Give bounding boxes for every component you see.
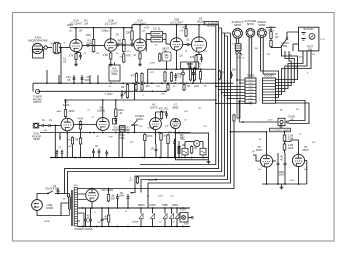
capacitor C13 series [48,124,50,127]
wire riser x119 [118,133,120,158]
svg-text:45V: 45V [299,57,303,59]
junction dots rail B [152,90,154,92]
input jack J1 [44,46,47,49]
capacitor C14 [114,118,117,120]
pilot lamp PL1 [180,213,188,223]
svg-text:117V: 117V [268,120,273,122]
junction dots row2 bottom [89,132,91,134]
wire V1 plate to bus [75,28,77,40]
wire stack top tie [270,28,272,31]
wire V4 cathode down [176,50,178,69]
svg-text:47K: 47K [221,72,226,75]
resistor R14 on bundle [218,71,220,79]
svg-text:MICROPHONE: MICROPHONE [28,39,48,43]
junction dots row3 [51,157,53,159]
svg-text:6.8K: 6.8K [108,137,113,139]
svg-text:6AQ5: 6AQ5 [197,20,205,24]
svg-text:1M: 1M [96,53,99,55]
wire row2 left end down [59,133,61,141]
svg-text:GANG: GANG [136,118,143,121]
bottom ground rail [78,226,190,228]
svg-text:47K: 47K [126,54,131,58]
wire box to switch [286,32,288,38]
resistor R2 input network [58,44,61,53]
svg-text:V10 35W4: V10 35W4 [101,188,113,192]
heater H4 [171,208,173,214]
power transformer T3 secondary coil [74,188,77,227]
switch S1 [281,45,283,47]
resistor R38 under IF [199,72,201,80]
xtal phono head PH1 [34,124,38,128]
tube V10 output left [260,155,272,167]
crystal microphone MIC1 [32,43,42,53]
tube V9 small [170,119,180,129]
svg-text:1ST IF: 1ST IF [147,128,154,130]
resistor R4 plate load V1 [92,40,95,52]
wire nested N2 [276,51,295,83]
resistors under V5 right [189,68,191,80]
bus rail B [38,90,168,92]
svg-text:100K: 100K [105,31,111,33]
capacitor C20 [178,145,181,147]
wire R17 down [80,130,82,138]
svg-text:220K: 220K [288,137,294,140]
wire long line from rectifier top [78,122,235,189]
wire staircase branch row y92.5 [222,92,245,94]
svg-text:VC P-P: VC P-P [207,26,215,28]
wire strip verticals bottom ties [237,112,240,118]
capacitor C30 under R11 [131,42,134,44]
svg-text:6BE6: 6BE6 [194,86,200,88]
resistor R26 [283,135,286,141]
wire left of V10 [253,155,260,161]
junction dots ground rail [82,226,84,228]
wave box right [200,148,206,155]
wire R24 down [160,141,162,157]
svg-text:1M: 1M [84,21,88,25]
wire rail A left end down [32,83,34,91]
svg-text:PH: PH [204,126,207,128]
tone capacitor box C6 [151,37,163,42]
wire caps down to rail [117,202,119,208]
rectifier tube V12 [86,189,99,202]
wire strip bundle vertical A [236,80,238,112]
wires tone network right [163,33,167,35]
resistor R27 [283,144,286,150]
resistor R18 [79,138,81,144]
svg-text:TO SPEAKER: TO SPEAKER [204,22,218,25]
wire bundle line 5 heater feed [141,36,228,193]
svg-text:500K: 500K [112,73,118,76]
wire input node down [60,48,62,84]
bottom rail output pair [262,183,307,185]
svg-text:1K: 1K [133,55,136,57]
cathode resistor R10 V5 [195,56,197,63]
wire C2 node to V2 grid [94,45,105,47]
wire R23 leads [144,132,146,135]
battery cell symbols in box [302,32,306,34]
svg-text:SO: SO [296,109,299,111]
AC line plug P1 [32,200,43,211]
svg-text:12K: 12K [130,142,134,144]
wire head out [39,125,42,127]
svg-text:.02: .02 [63,59,67,63]
svg-text:4: 4 [259,86,260,88]
tone capacitor box C5 [151,31,163,36]
capacitor C10 on drop [73,77,76,79]
terminal strip TS1 left block [245,78,256,103]
svg-text:150MA: 150MA [132,221,139,224]
svg-text:SPKR: SPKR [234,23,241,27]
capacitor C21 above label box [280,125,283,127]
wire bundle line 2 to transformer primary [65,25,219,194]
resistor R29 below rail [108,215,110,222]
wire R19 to rail [115,100,117,108]
ground V3 cathode [139,60,141,63]
capacitor C32 above bus3 [105,151,108,153]
svg-text:1.5V: 1.5V [129,180,134,182]
rail row2 bottom [40,132,190,134]
wire jack to input network [47,47,52,49]
resistor R21 right stack [270,41,272,47]
svg-text:SPKR: SPKR [258,23,265,27]
wire fuse left lead [255,121,278,123]
terminal strip TS2 right block [263,78,276,103]
wire primary ends [69,194,71,198]
wire V11 top [291,140,299,154]
tube V2 triode [105,39,117,51]
wire tone to V4 grid [166,43,170,45]
wire V8 top tie [156,111,167,113]
wire caps top tie [108,193,110,195]
wire SP1 leads down [235,38,237,44]
wire nested N1 [276,49,298,80]
capacitor C28 below rail [89,218,92,220]
wire strip bottom tie [216,103,251,105]
small resistor on fuse line [233,115,235,121]
heater H2 [152,208,154,214]
svg-text:2.7K: 2.7K [68,54,74,58]
B+ bus right segment [132,24,219,26]
resistor R18b beside R18 [71,138,73,145]
wire plug bottom lead [37,203,69,216]
wires inset top [184,142,186,149]
cathode extras V2 [123,54,125,62]
svg-text:47K: 47K [150,72,154,74]
svg-text:1.5V: 1.5V [320,39,325,41]
IF label box left [181,62,190,69]
svg-text:600V: 600V [150,63,156,65]
wire V5 plate to bus [198,25,200,37]
resistor R16 plate V6 [64,110,66,117]
svg-text:4: 4 [259,100,260,102]
junction rectifier top [91,188,93,190]
svg-text:12AT6: 12AT6 [150,105,158,109]
wire nested N4 [276,51,304,89]
capacitor C35 on bus3 left [61,151,63,153]
svg-text:Y .0047: Y .0047 [104,93,113,96]
capacitor C24 across line [57,189,60,191]
wire C4 node to V3 grid [124,44,134,46]
resistor R39 inside inset [178,147,180,154]
resistor R6 plate load V2 [123,40,126,52]
small box under V7 [113,119,117,125]
meter circle in battery box [309,34,315,40]
resistor R37 below rail A [183,85,185,91]
resistor R31b above rail A [141,74,143,83]
resistor R34 below rail A [135,85,137,91]
svg-text:BATTERY: BATTERY [304,28,315,31]
svg-text:6.3V: 6.3V [184,224,189,226]
wire staircase branch row y95.5 [224,95,245,97]
resistor R35 below rail A [141,85,143,91]
svg-text:2M: 2M [44,130,47,132]
wire bundle line 6 from SP2 [148,33,230,208]
capacitor C31 below rail B [121,93,124,95]
bus rail A [33,82,234,84]
capacitor C17 above bus3 [92,150,95,152]
svg-text:250V: 250V [158,196,164,198]
wire to V6 grid [50,125,61,127]
svg-text:150V: 150V [279,175,285,177]
capacitor C18 above bus3 [98,150,101,152]
svg-text:270: 270 [190,55,195,59]
svg-text:35C5: 35C5 [302,148,309,152]
wire nested N3 [276,51,292,86]
bypass capacitor C9 [200,57,203,59]
wire plate out to V7 [93,124,97,126]
svg-text:.02: .02 [186,38,190,42]
wire V3 plate to bus [139,25,141,39]
svg-text:2A: 2A [290,118,293,121]
svg-text:.01: .01 [115,33,119,37]
cathode resistor R5 V1 [75,54,77,60]
wire V10 down [266,167,268,184]
capacitor C27 below rail [84,218,87,220]
wire strip row lead y83 from SP1 [240,82,245,84]
wire grid leak down [54,126,56,158]
wire V10 grid [273,160,276,162]
wire row2 rail to bundle [135,99,216,101]
svg-text:4: 4 [259,83,260,85]
svg-text:+100: +100 [144,28,150,30]
wire box lower lead [293,43,299,45]
oscillator coil box L1 [120,126,126,133]
heater rail [78,207,190,209]
wire mic to jack [43,47,44,49]
capacitor C19 under V8 [155,148,158,150]
ground output pair [281,184,283,186]
fuse holder F1 [278,118,285,125]
wire chain to V11 grid [285,141,292,143]
svg-text:SR: SR [63,199,66,201]
power transformer secondary wire [76,188,78,190]
ground return line top section [148,68,203,70]
capacitor C16 [173,141,176,143]
wire bundle line 1 [140,25,216,165]
decoupling resistor R11 at bus jog [131,31,133,40]
junction dot B plus [155,179,157,181]
svg-text:150V: 150V [119,196,125,198]
bypass capacitor C3 [79,54,82,56]
wire SP3 lead A [261,38,279,98]
variable capacitor VC1 [132,120,138,126]
wire V8 cathode to C19 [155,130,157,145]
jack circle under IF left [182,72,185,75]
svg-text:600V: 600V [85,78,91,82]
bus jog at x132 [131,25,133,28]
svg-text:+250: +250 [182,27,188,29]
svg-text:TO OUTPUT TRANS: TO OUTPUT TRANS [270,129,290,132]
wire R11 top [131,28,133,30]
svg-text:220K: 220K [69,109,75,113]
power transformer T3 core [71,190,73,226]
svg-text:SW: SW [308,48,313,51]
wire rectifier down [91,202,93,209]
switch S2 on line [47,193,49,195]
meter inset box [176,133,209,160]
svg-text:47K: 47K [180,31,184,33]
wire R16 to plate [65,117,67,120]
resistor R28 [107,195,109,202]
wire pilot stub [188,217,192,219]
svg-text:150V: 150V [85,222,91,224]
svg-text:12BA6: 12BA6 [97,108,105,112]
svg-text:OSC: OSC [138,126,143,128]
wire V5 cathode [198,52,200,54]
wire bundle ties upper [222,32,231,34]
svg-text:50B5: 50B5 [162,205,168,207]
svg-text:150: 150 [145,85,150,88]
power transformer T3 primary coil [68,197,70,209]
wire V5 cathode to ground line [195,63,197,69]
wire staircase branch row y86.5 [216,86,245,88]
resistor R36 below rail A [167,85,169,91]
svg-text:2.5A: 2.5A [181,138,186,141]
coupling capacitor C2 [86,44,88,47]
output transformer T2 under SP1 [235,44,241,51]
output tube V5 beam power [191,37,206,52]
wire T4b bottom to ground line [166,61,168,69]
svg-text:.02: .02 [58,147,61,149]
wire T2 secondary down [236,54,238,80]
svg-text:470K: 470K [147,135,153,138]
svg-text:1K: 1K [163,135,166,138]
svg-text:M: M [196,143,198,146]
tube V4 driver triode [170,38,182,50]
ground inset corner [208,159,210,162]
svg-text:INPUT: INPUT [34,100,42,104]
svg-text:1.5K: 1.5K [103,53,109,57]
svg-text:TRANSFORMER: TRANSFORMER [112,129,130,132]
svg-text:CORD: CORD [46,206,54,210]
wire nested N9 lower [276,103,310,124]
svg-text:220K: 220K [288,147,294,150]
wire feed line to output pair [230,131,265,133]
svg-text:6AT6: 6AT6 [57,110,63,113]
wire SP2 lead B [251,37,253,78]
svg-text:47K .002: 47K .002 [159,108,169,111]
capacitor C34 on bus3 left [56,151,58,153]
svg-text:FUSE: FUSE [44,221,50,223]
secondary tap wires [77,193,86,195]
wire nested N8 lower going down [276,101,306,121]
tube V1 preamp triode [70,39,82,51]
svg-text:6AV6: 6AV6 [63,103,70,107]
resistor R8b left of T4b [159,54,161,61]
wire VC1 down [134,125,136,133]
volume pot VR2 below rail A [126,85,128,98]
resistor R33 above rail A [170,73,172,82]
wire V6 plate out [74,124,93,126]
wire V10 top [266,132,268,155]
wire riser rail A to row2 rail [134,83,136,100]
svg-text:470K: 470K [78,118,84,121]
wire bundle tie top [219,27,222,29]
svg-text:4.7M: 4.7M [73,139,78,142]
svg-text:35W4: 35W4 [172,205,179,207]
capacitor C12 series [41,124,43,127]
wire V9 cathode down [174,129,176,133]
svg-text:4: 4 [259,97,260,99]
rail row3 bus [50,157,209,159]
resistor R31a above rail A [135,74,137,83]
wire V8 plate up [155,112,157,118]
wire V11 down [298,167,300,184]
wire staircase branch row y98.5 [228,98,246,100]
svg-text:HEAD: HEAD [33,138,40,141]
wire bundle line 3 to transformer [68,28,222,197]
capacitor C33 right of bundle [230,73,233,75]
svg-text:.005: .005 [85,33,91,37]
svg-text:DET: DET [188,66,193,68]
wire nested N6 [276,51,312,95]
resistor R30 between heater feed lines [136,177,138,183]
wire heater rail left join [77,207,79,209]
speaker SP1 alnico [233,28,243,38]
svg-text:PM: PM [267,54,270,56]
svg-text:22K: 22K [126,31,131,35]
svg-text:GND: GND [290,180,295,182]
tube V8 pentode [150,118,162,130]
wire R28 up [108,189,110,194]
capacitor C29 below rail [101,218,104,220]
wire SP1 lead into strip [236,79,238,81]
wire R26 R27 chain [284,132,286,134]
svg-text:47K: 47K [69,31,73,33]
ground return line left end down [147,69,149,83]
heater H5 [176,208,178,214]
svg-text:4: 4 [259,94,260,96]
wire V7 plate up [102,100,104,118]
svg-text:22K: 22K [142,31,146,33]
wire strip row lead y101 from vertical [239,100,245,102]
wire plug top lead [37,194,48,200]
coupling capacitor C8 [186,43,188,46]
speaker SP2 [246,28,255,37]
wires tone network left [146,33,151,35]
jack circle under IF right [192,72,195,75]
wire input network ties [55,41,60,43]
wire SP3 lead B [263,38,276,74]
to output trans label box [270,128,291,132]
wire R16 to rail [65,100,67,108]
output transformer label box [204,21,218,24]
ground V2 cathode [110,60,112,63]
resistor R20 right stack [270,32,272,39]
tube V7 pentode [96,118,109,131]
wire R6 top to bus [123,28,125,39]
